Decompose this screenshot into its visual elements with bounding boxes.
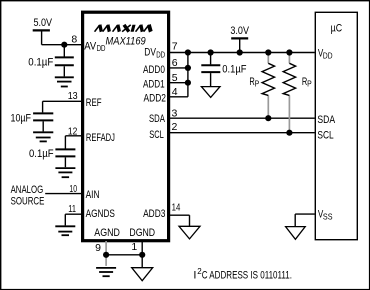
svg-text:P: P — [307, 79, 312, 89]
svg-text:AV: AV — [84, 40, 96, 52]
svg-text:SDA: SDA — [149, 113, 165, 125]
svg-text:3: 3 — [172, 107, 178, 119]
svg-text:ADD2: ADD2 — [144, 92, 167, 104]
svg-text:MAX1169: MAX1169 — [106, 36, 146, 48]
svg-text:5: 5 — [172, 72, 178, 84]
svg-text:DD: DD — [97, 43, 106, 53]
svg-text:9: 9 — [95, 242, 101, 254]
svg-text:REF: REF — [86, 97, 102, 109]
svg-text:P: P — [255, 79, 260, 89]
svg-text:3.0V: 3.0V — [230, 25, 249, 37]
svg-text:REFADJ: REFADJ — [86, 132, 115, 144]
svg-text:DV: DV — [144, 47, 156, 59]
svg-text:10: 10 — [69, 183, 77, 195]
svg-text:AGNDS: AGNDS — [86, 208, 115, 220]
svg-text:0.1µF: 0.1µF — [28, 57, 53, 69]
svg-text:AIN: AIN — [86, 189, 100, 201]
svg-text:SDA: SDA — [317, 114, 335, 126]
svg-text:13: 13 — [68, 90, 78, 102]
svg-text:12: 12 — [68, 126, 78, 138]
svg-text:SOURCE: SOURCE — [11, 195, 45, 207]
svg-text:6: 6 — [172, 57, 178, 69]
svg-text:ADD0: ADD0 — [143, 64, 165, 76]
svg-text:0.1µF: 0.1µF — [222, 64, 246, 76]
svg-text:14: 14 — [172, 202, 181, 214]
svg-text:5.0V: 5.0V — [34, 17, 53, 29]
svg-text:ADD1: ADD1 — [143, 78, 165, 90]
svg-text:2: 2 — [172, 121, 178, 133]
svg-text:DD: DD — [156, 49, 165, 59]
svg-text:11: 11 — [68, 203, 76, 215]
svg-text:7: 7 — [172, 41, 178, 53]
svg-text:SS: SS — [323, 212, 333, 222]
svg-text:AGND: AGND — [94, 227, 120, 239]
svg-text:0.1µF: 0.1µF — [29, 148, 54, 160]
svg-text:SCL: SCL — [317, 130, 333, 142]
svg-text:4: 4 — [172, 86, 178, 98]
svg-text:ADD3: ADD3 — [143, 208, 165, 220]
svg-text:DGND: DGND — [129, 227, 155, 239]
svg-text:SCL: SCL — [149, 129, 164, 141]
svg-text:µC: µC — [331, 23, 343, 35]
svg-text:10µF: 10µF — [11, 112, 32, 124]
svg-text:DD: DD — [323, 51, 333, 61]
svg-text:I: I — [193, 269, 196, 281]
svg-text:1: 1 — [131, 241, 137, 253]
svg-text:8: 8 — [71, 34, 77, 46]
svg-text:C ADDRESS IS 0110111.: C ADDRESS IS 0110111. — [202, 269, 292, 281]
